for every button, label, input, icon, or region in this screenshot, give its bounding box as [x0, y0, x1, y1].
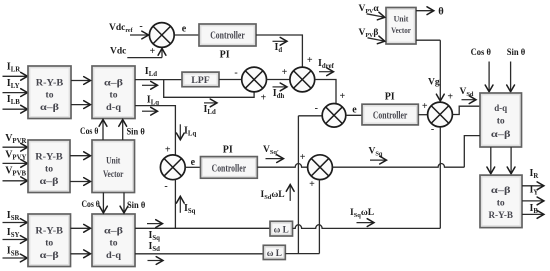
- wire B1 to B2 upper: [71, 77, 91, 85]
- node I_B output label: [530, 203, 539, 215]
- wire I_LB input arrow: [3, 105, 28, 113]
- node Cos theta label (B7 feed): [471, 48, 491, 58]
- wire cos theta up into B2: [99, 120, 107, 141]
- svg-text:Unit: Unit: [394, 15, 409, 24]
- node Vdc label: [110, 47, 126, 57]
- wire J4 to PI controller 2: [346, 114, 362, 116]
- wire I_SY input arrow: [3, 236, 28, 244]
- svg-text:Vector: Vector: [103, 169, 124, 180]
- node minus sign at J2: [234, 67, 237, 78]
- svg-text:+: +: [282, 67, 288, 78]
- node I_Ld bypass label with arrow: [204, 99, 218, 116]
- wire sin theta up into B2: [119, 120, 127, 141]
- block U1 Unit Vector (PV alpha-beta): [386, 8, 416, 45]
- node plus sign at J1: [149, 46, 155, 57]
- svg-text:Vdc: Vdc: [110, 47, 126, 57]
- wire V_PValpha into U1: [367, 12, 386, 21]
- node I_Lq annotation arrow below wire: [142, 107, 158, 115]
- node e label after J6: [191, 157, 196, 168]
- block C3 PI Controller (q-axis): [201, 157, 258, 179]
- svg-text:Sin θ: Sin θ: [126, 128, 144, 138]
- block B2 alpha-beta to d-q (load currents): [92, 66, 135, 119]
- node I_R output label: [530, 168, 539, 180]
- wire theta output: [416, 7, 434, 15]
- node V_Sq label with arrow: [369, 147, 387, 165]
- node theta label: [438, 7, 444, 18]
- svg-text:Controller: Controller: [210, 31, 245, 42]
- node Cos theta label (B2 feed): [80, 127, 98, 137]
- summing junction J6 (q-axis error): [160, 155, 185, 180]
- wire I_LR input arrow: [3, 72, 28, 80]
- node I_Sq label at B6 output: [147, 220, 163, 243]
- wire sin theta down into B7: [507, 62, 515, 92]
- node I_SB input label: [7, 245, 20, 257]
- node V_PVY input label: [5, 149, 26, 161]
- wire V_PVR input arrow: [3, 143, 28, 151]
- svg-text:Sin θ: Sin θ: [507, 48, 526, 58]
- wire B2 I_Lq to J6 top: [135, 106, 175, 155]
- node I_Y output label: [530, 185, 539, 197]
- svg-text:α–β: α–β: [40, 102, 59, 113]
- wire V_PVB input arrow: [3, 177, 28, 185]
- wire I_B output arrow: [522, 211, 544, 219]
- node minus sign at J6 bottom: [164, 181, 167, 192]
- wire J1 to PI controller 1: [174, 34, 199, 36]
- wire Vdc into J1 bottom: [127, 48, 166, 57]
- node e label after J1: [182, 24, 187, 35]
- block B1 R-Y-B to alpha-beta (load currents): [28, 66, 71, 119]
- wire I_Y output arrow: [522, 197, 544, 205]
- wire I_Sq branch up to J6 bottom: [174, 180, 176, 228]
- svg-text:+: +: [307, 55, 313, 66]
- summing junction J7 (V_Sq sum): [308, 155, 333, 180]
- svg-text:R-Y-B: R-Y-B: [488, 210, 513, 221]
- wire Vdc_ref into J1: [130, 31, 149, 39]
- svg-text:+: +: [422, 101, 428, 112]
- block B3 R-Y-B to alpha-beta (PV voltages): [28, 140, 70, 193]
- svg-text:to: to: [45, 238, 53, 249]
- svg-text:α–β: α–β: [491, 129, 511, 140]
- svg-text:Cos θ: Cos θ: [471, 48, 491, 58]
- node V_Sq_prime label with arrow: [263, 145, 284, 163]
- node I_Sq vertical label with up arrow: [176, 196, 195, 215]
- node V_PVB input label: [5, 166, 26, 178]
- wire C1 output to J3 top: [256, 35, 302, 67]
- wire line1 horizontal into J4 left: [298, 115, 322, 117]
- svg-text:Cos θ: Cos θ: [80, 127, 98, 137]
- node PI label for C3: [223, 145, 233, 156]
- svg-text:-: -: [164, 181, 167, 192]
- svg-text:Unit: Unit: [106, 156, 121, 167]
- wire B7 to B8 right: [507, 147, 515, 174]
- wire I_SB input arrow: [3, 254, 28, 262]
- svg-text:Vector: Vector: [391, 26, 411, 35]
- summing junction J2 (harmonic extract): [242, 67, 267, 92]
- wire J5 to B7 (V_Sd): [452, 106, 480, 114]
- wire line2 I_SdwL up to J7 bottom: [318, 180, 320, 254]
- wire J6 to PI controller 3: [185, 166, 200, 168]
- node I_Lq label at B2 output: [147, 95, 159, 107]
- svg-text:ω L: ω L: [267, 248, 282, 258]
- svg-text:+: +: [261, 92, 267, 103]
- wire B3 to B4 upper: [70, 152, 91, 160]
- wire J7 to B7 (V_Sq) with hop: [332, 136, 480, 168]
- wire B1 to B2 lower: [71, 101, 91, 109]
- wire C2 to J5: [418, 114, 427, 116]
- block B5 R-Y-B to alpha-beta (source currents): [28, 214, 71, 267]
- node plus sign at J4 top: [339, 91, 345, 102]
- svg-text:R-Y-B: R-Y-B: [36, 78, 64, 89]
- wire V_PVY input arrow: [3, 160, 28, 168]
- node plus sign at J3 left: [282, 67, 288, 78]
- svg-text:to: to: [45, 164, 53, 175]
- node minus sign at J4 left: [315, 103, 318, 114]
- svg-text:α–β: α–β: [40, 176, 59, 187]
- svg-text:d-q: d-q: [494, 103, 508, 114]
- node I_SR input label: [7, 210, 20, 222]
- svg-text:-: -: [139, 21, 142, 32]
- wire J2 to J3: [267, 79, 290, 81]
- node V_PVR input label: [5, 133, 26, 145]
- svg-text:R-Y-B: R-Y-B: [35, 152, 63, 163]
- svg-text:PI: PI: [223, 145, 233, 156]
- node I_d label with arrow: [273, 37, 288, 54]
- svg-text:Vg: Vg: [428, 78, 440, 88]
- node I_LR input label: [7, 62, 20, 74]
- node I_SqwL label with arrow: [350, 208, 374, 227]
- wire C3 to J7 with hop: [257, 163, 307, 167]
- svg-text:e: e: [352, 104, 357, 115]
- svg-text:Controller: Controller: [373, 110, 408, 121]
- svg-text:PI: PI: [220, 50, 230, 61]
- node minus sign at J5 bottom: [431, 124, 434, 135]
- svg-text:Sin θ: Sin θ: [127, 201, 145, 211]
- svg-text:α–β: α–β: [104, 78, 123, 89]
- node I_dref label with arrow: [318, 58, 335, 76]
- wire omega-L2 output to line1/line2: [285, 253, 319, 255]
- wire cos theta down into B7: [485, 62, 493, 92]
- svg-text:R-Y-B: R-Y-B: [35, 226, 63, 237]
- wire I_Ld bypass to J2 bottom: [164, 80, 254, 98]
- wire B7 to B8 left: [487, 147, 495, 174]
- wire line1 I_SdwL up to J4: [297, 116, 299, 254]
- wire B6 I_Sd to omega-L 2: [135, 253, 263, 255]
- node minus sign at J1: [139, 21, 142, 32]
- svg-text:to: to: [497, 115, 505, 126]
- svg-text:+: +: [447, 92, 453, 103]
- node I_Ld annotation arrow: [142, 81, 158, 89]
- summing junction J3 (Id + Idh): [290, 67, 315, 92]
- svg-text:+: +: [309, 179, 315, 190]
- wire sin theta down into B6: [120, 193, 128, 214]
- wire I_R output arrow: [522, 182, 544, 190]
- node I_Sd label at B6 output: [148, 241, 164, 264]
- svg-text:+: +: [300, 152, 306, 163]
- node I_SdwL label with up arrow: [261, 185, 295, 202]
- svg-text:d-q: d-q: [106, 250, 122, 261]
- wire B2 to LPF: [135, 79, 182, 81]
- block B4 Unit Vector: [92, 140, 135, 193]
- svg-text:e: e: [191, 157, 196, 168]
- svg-text:to: to: [110, 238, 118, 249]
- node V_Sd label with arrow: [460, 87, 477, 104]
- block C2 PI Controller (d-axis): [362, 104, 418, 125]
- wire cos theta down into B6: [100, 193, 108, 214]
- node I_LY input label: [7, 78, 20, 90]
- summing junction J4 (d-axis error): [322, 104, 346, 128]
- node Sin theta label (B2 feed): [126, 128, 144, 138]
- node PI label for C2: [385, 91, 395, 102]
- svg-text:ω L: ω L: [274, 224, 289, 234]
- wire J3 to J4 top: [315, 80, 336, 104]
- node plus sign at J7 bottom: [309, 179, 315, 190]
- wire B3 to B4 lower: [70, 178, 91, 186]
- node plus sign at J7 left: [300, 152, 306, 163]
- svg-text:-: -: [315, 103, 318, 114]
- svg-text:+: +: [149, 46, 155, 57]
- svg-text:ISqωL: ISqωL: [350, 208, 374, 219]
- node e label after J4: [352, 104, 357, 115]
- svg-text:Controller: Controller: [212, 163, 247, 174]
- svg-text:ISdωL: ISdωL: [261, 190, 285, 201]
- node I_SY input label: [7, 227, 20, 239]
- svg-text:to: to: [46, 90, 54, 101]
- block W1 omega-L (q path): [270, 221, 293, 236]
- summing junction J1 (Vdc error): [149, 23, 174, 48]
- summing junction J5 (Vg compensation): [428, 102, 453, 127]
- wire Vg from U1 to J5 top: [416, 40, 444, 101]
- node Vdc_ref label: [109, 23, 134, 34]
- node Sin theta label (B7 feed): [507, 48, 526, 58]
- node plus sign at J5 top: [447, 92, 453, 103]
- node I_dh label with arrow: [273, 83, 288, 100]
- svg-text:PI: PI: [385, 91, 395, 102]
- block C1 PI Controller (Vdc): [199, 24, 256, 46]
- block W2 omega-L (d path): [263, 245, 285, 259]
- svg-text:to: to: [497, 198, 505, 209]
- wire B6 I_Sq to omega-L 1: [135, 227, 270, 229]
- svg-text:LPF: LPF: [191, 75, 210, 86]
- block B6 alpha-beta to d-q (source currents): [92, 214, 135, 267]
- wire I_SR input arrow: [3, 219, 28, 227]
- wire V_PVbeta into U1: [368, 36, 386, 45]
- node I_Ld label at B2 output: [145, 66, 157, 78]
- node plus sign at J2 bottom: [261, 92, 267, 103]
- wire LPF to J2: [219, 79, 242, 81]
- wire B5 to B6 lower: [71, 250, 91, 258]
- node PI label for C1: [220, 50, 230, 61]
- node I_LB input label: [7, 94, 20, 106]
- node Sin theta label (B6 feed): [127, 201, 145, 211]
- svg-text:α–β: α–β: [491, 185, 511, 196]
- node Vg label: [428, 78, 440, 88]
- svg-text:α–β: α–β: [40, 250, 59, 261]
- svg-text:+: +: [339, 91, 345, 102]
- svg-text:e: e: [182, 24, 187, 35]
- block B8 alpha-beta to R-Y-B: [480, 175, 522, 228]
- wire omega-L1 output to J5 bottom with hops: [293, 127, 441, 228]
- block LPF: [182, 72, 219, 87]
- wire I_LY input arrow: [3, 89, 28, 97]
- svg-text:θ: θ: [438, 7, 444, 18]
- node plus sign at J6 top: [165, 144, 171, 155]
- svg-text:α–β: α–β: [104, 226, 123, 237]
- node V_PValpha label: [359, 4, 380, 15]
- svg-text:to: to: [110, 90, 118, 101]
- svg-text:Cos θ: Cos θ: [81, 200, 99, 210]
- node plus sign at J3 top: [307, 55, 313, 66]
- svg-text:+: +: [165, 144, 171, 155]
- node plus sign at J5 left: [422, 101, 428, 112]
- node I_Lq vertical label with down arrow: [176, 124, 196, 140]
- node Cos theta label (B6 feed): [81, 200, 99, 210]
- svg-text:-: -: [234, 67, 237, 78]
- wire B5 to B6 upper: [71, 224, 91, 232]
- node V_PVbeta label: [359, 28, 379, 39]
- svg-text:d-q: d-q: [106, 102, 122, 113]
- block B7 d-q to alpha-beta: [480, 93, 522, 147]
